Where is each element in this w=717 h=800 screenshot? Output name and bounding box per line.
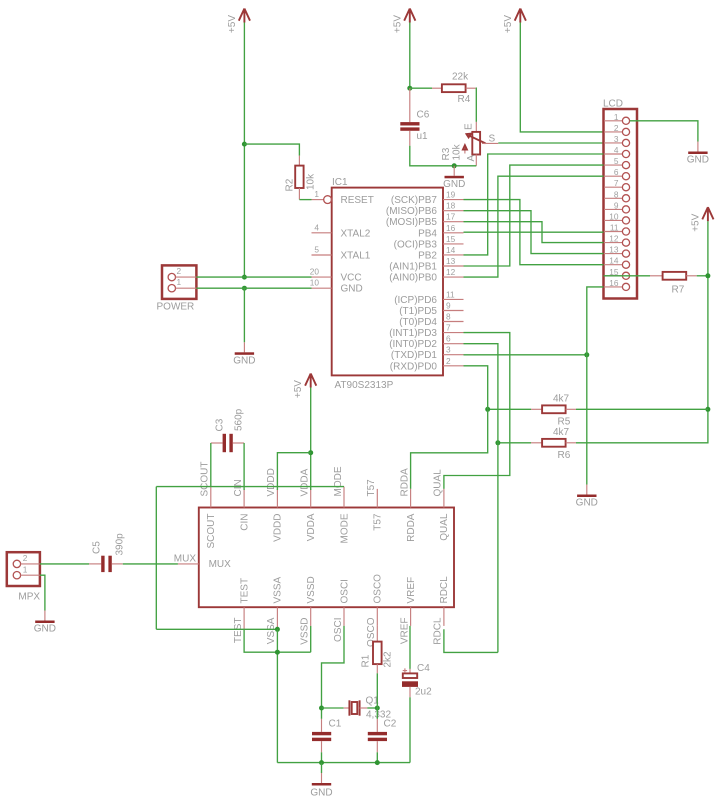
svg-text:1: 1 bbox=[23, 564, 28, 574]
svg-text:R2: R2 bbox=[285, 178, 296, 191]
svg-text:+5V: +5V bbox=[690, 213, 701, 231]
svg-text:RDDA: RDDA bbox=[399, 468, 410, 497]
wire VREF down to C4 bbox=[409, 626, 411, 669]
wire VDDD branch bbox=[277, 453, 310, 490]
svg-text:A: A bbox=[466, 155, 477, 162]
svg-text:T57: T57 bbox=[373, 513, 384, 531]
wire R5 left to junction bbox=[488, 408, 531, 410]
svg-text:RDCL: RDCL bbox=[433, 617, 444, 645]
wire C3 right down to CIN bbox=[243, 443, 245, 490]
svg-text:1: 1 bbox=[177, 277, 182, 287]
wire R7 to +5V rail bbox=[697, 275, 708, 277]
svg-text:R3: R3 bbox=[441, 147, 452, 160]
wire PB1 pin13 to LCD pad5 bbox=[464, 165, 604, 266]
wire POWER pin2 to IC1 VCC bbox=[196, 276, 311, 278]
LCD pad 14 bbox=[604, 256, 630, 269]
LCD pad 12 bbox=[604, 234, 630, 247]
svg-text:QUAL: QUAL bbox=[439, 513, 450, 541]
wire +5V rail vertical to VCC row bbox=[243, 23, 245, 278]
svg-text:+5V: +5V bbox=[503, 15, 514, 33]
svg-text:17: 17 bbox=[446, 212, 456, 222]
IC1 pin 1 RESET bbox=[312, 189, 374, 206]
wire ground rail bottom bbox=[277, 762, 410, 764]
svg-text:(TXD)PD1: (TXD)PD1 bbox=[391, 350, 438, 361]
IC1 pin 2 (RXD)PD0 bbox=[390, 356, 464, 373]
IC U2 top pin SCOUT bbox=[200, 462, 218, 549]
svg-text:9: 9 bbox=[446, 301, 451, 311]
wire C1 to ground rail bbox=[321, 752, 323, 762]
svg-text:XTAL1: XTAL1 bbox=[341, 251, 371, 262]
IC U2 bottom pin RDCL bbox=[433, 576, 451, 645]
wire R5 row right bbox=[576, 408, 708, 410]
svg-text:(ICP)PD6: (ICP)PD6 bbox=[394, 295, 437, 306]
IC U2 bottom pin OSCI bbox=[333, 579, 351, 642]
LCD pad 16 bbox=[604, 278, 630, 291]
svg-text:C6: C6 bbox=[417, 110, 430, 121]
power symbol +5V (LCD VDD rail) bbox=[503, 9, 526, 34]
IC U2 bottom pin VREF bbox=[399, 577, 417, 644]
LCD pad 10 bbox=[604, 211, 630, 224]
svg-text:VSSD: VSSD bbox=[306, 576, 317, 603]
svg-text:TEST: TEST bbox=[233, 618, 244, 644]
svg-text:(T1)PD5: (T1)PD5 bbox=[399, 306, 437, 317]
LCD pad 8 bbox=[604, 189, 630, 202]
svg-text:VSSA: VSSA bbox=[273, 576, 284, 603]
wire trimmer A to ground node bbox=[454, 165, 476, 167]
IC U2 bottom pin OSCO bbox=[366, 574, 384, 647]
wire R1 down through crystal node to C2 bbox=[376, 673, 378, 719]
svg-text:19: 19 bbox=[446, 190, 456, 200]
wire RDCL to R6 net bbox=[444, 629, 498, 652]
node junction rail/C2 bbox=[375, 760, 380, 765]
svg-text:1: 1 bbox=[314, 189, 319, 199]
svg-text:6: 6 bbox=[614, 167, 619, 177]
connector MPX bbox=[7, 552, 41, 602]
wire TEST column jog bbox=[244, 629, 311, 652]
ground GND (MPX) bbox=[34, 611, 56, 635]
connector POWER bbox=[157, 265, 197, 312]
svg-text:R5: R5 bbox=[558, 417, 571, 428]
svg-text:RDDA: RDDA bbox=[406, 513, 417, 542]
IC1 pin 11 (ICP)PD6 bbox=[394, 289, 463, 306]
op-amp/mcu IC1 AT90S2313P body bbox=[332, 177, 443, 391]
svg-text:R1: R1 bbox=[361, 654, 372, 667]
svg-text:GND: GND bbox=[576, 498, 598, 509]
svg-text:+5V: +5V bbox=[227, 15, 238, 33]
wire VSSD vertical bbox=[310, 626, 312, 652]
wire PD2 pin6 through R6 node down to RDCL link bbox=[464, 344, 498, 653]
svg-text:R7: R7 bbox=[672, 285, 685, 296]
wire ground net left vertical bbox=[155, 487, 157, 630]
svg-text:S: S bbox=[489, 134, 496, 145]
svg-text:8: 8 bbox=[446, 312, 451, 322]
svg-text:2k2: 2k2 bbox=[383, 651, 394, 668]
svg-text:VCC: VCC bbox=[341, 273, 362, 284]
svg-text:C1: C1 bbox=[329, 719, 342, 730]
node junction crystal left bbox=[319, 706, 324, 711]
svg-text:4: 4 bbox=[614, 145, 619, 155]
IC1 pin 14 PB2 bbox=[418, 245, 463, 262]
wire PB0 pin12 to LCD pad6 bbox=[464, 176, 604, 277]
svg-text:OSCI: OSCI bbox=[339, 579, 350, 603]
svg-text:13: 13 bbox=[446, 256, 456, 266]
resistor R6 4k7 bbox=[531, 427, 576, 461]
svg-text:C5: C5 bbox=[92, 541, 103, 554]
IC1 pin 8 (T0)PD4 bbox=[399, 312, 463, 329]
ground GND (under POWER) bbox=[233, 342, 255, 366]
node junction R6/PD2/RDCL bbox=[495, 440, 500, 445]
IC1 pin 7 (INT1)PD3 bbox=[389, 323, 463, 340]
LCD pad 1 bbox=[604, 112, 630, 125]
svg-text:R4: R4 bbox=[458, 94, 471, 105]
LCD pad 6 bbox=[604, 167, 630, 180]
svg-text:PB4: PB4 bbox=[418, 228, 437, 239]
wire R4 right down to trimmer E bbox=[475, 88, 478, 122]
svg-text:5: 5 bbox=[314, 245, 319, 255]
IC1 pin 12 (AIN0)PB0 bbox=[389, 267, 463, 284]
svg-text:12: 12 bbox=[609, 234, 619, 244]
IC U2 top pin MODE bbox=[333, 466, 351, 543]
svg-text:MODE: MODE bbox=[333, 466, 344, 496]
svg-text:GND: GND bbox=[310, 788, 332, 799]
wire PD3 pin7 to QUAL bbox=[444, 333, 510, 489]
svg-text:(AIN1)PB1: (AIN1)PB1 bbox=[389, 262, 437, 273]
IC U2 top pin CIN bbox=[233, 479, 251, 530]
IC U2 bottom pin VSSA bbox=[266, 576, 284, 644]
IC U2 bottom pin TEST bbox=[233, 578, 251, 643]
svg-text:CIN: CIN bbox=[239, 514, 250, 531]
resistor R7 bbox=[650, 272, 697, 296]
wire +5V right rail vertical bbox=[576, 221, 708, 443]
wire MPX pin2 to C5 bbox=[40, 563, 89, 565]
capacitor C2 bbox=[368, 719, 397, 753]
LCD pad 15 bbox=[604, 267, 630, 280]
node junction R7/+5V bbox=[705, 273, 710, 278]
svg-text:VDDD: VDDD bbox=[273, 514, 284, 542]
svg-text:+5V: +5V bbox=[293, 380, 304, 398]
LCD pad 13 bbox=[604, 245, 630, 258]
IC1 pin 16 PB4 bbox=[418, 223, 463, 240]
svg-text:(OCI)PB3: (OCI)PB3 bbox=[394, 239, 438, 250]
wire GND row down to ground bbox=[243, 288, 245, 342]
svg-text:C4: C4 bbox=[417, 663, 430, 674]
IC1 pin 9 (T1)PD5 bbox=[399, 301, 463, 318]
IC U2 top pin VDDD bbox=[266, 468, 284, 542]
IC U2 top pin QUAL bbox=[433, 469, 451, 541]
svg-text:AT90S2313P: AT90S2313P bbox=[335, 380, 394, 391]
IC U2 top pin VDDA bbox=[300, 468, 318, 541]
node junction R5/+5V bbox=[705, 407, 710, 412]
node junction VDDD branch bbox=[308, 450, 313, 455]
svg-text:7: 7 bbox=[614, 178, 619, 188]
wire MPX pin1 to ground bbox=[40, 575, 45, 610]
svg-text:E: E bbox=[463, 123, 474, 130]
svg-text:C3: C3 bbox=[215, 418, 226, 431]
wire LCD pad1 to ground bbox=[630, 121, 698, 142]
wire ground net SCOUT-MODE horizontal bbox=[156, 486, 344, 488]
svg-text:10k: 10k bbox=[452, 143, 463, 160]
ground GND (right of LCD) bbox=[687, 142, 709, 166]
svg-text:GND: GND bbox=[341, 284, 363, 295]
svg-text:4k7: 4k7 bbox=[553, 427, 570, 438]
svg-text:(INT1)PD3: (INT1)PD3 bbox=[389, 328, 437, 339]
LCD pad 2 bbox=[604, 123, 630, 136]
svg-text:(MOSI)PB5: (MOSI)PB5 bbox=[386, 217, 438, 228]
svg-text:16: 16 bbox=[609, 278, 619, 288]
IC1 pin 5 XTAL1 bbox=[312, 245, 371, 262]
capacitor C4 2u2 polarized bbox=[402, 663, 432, 698]
IC1 pin 18 (MISO)PB6 bbox=[386, 201, 464, 218]
resistor R1 2k2 bbox=[361, 626, 394, 673]
svg-text:TEST: TEST bbox=[239, 578, 250, 604]
svg-text:2: 2 bbox=[23, 553, 28, 563]
svg-text:1: 1 bbox=[614, 112, 619, 122]
svg-text:LCD: LCD bbox=[603, 99, 623, 110]
resistor R4 22k bbox=[432, 72, 476, 106]
svg-text:RDCL: RDCL bbox=[439, 576, 450, 604]
svg-text:MPX: MPX bbox=[18, 592, 40, 603]
ground GND (mid right) bbox=[576, 485, 598, 509]
svg-text:20: 20 bbox=[310, 267, 320, 277]
LCD pad 7 bbox=[604, 178, 630, 191]
wire trimmer S to LCD pin 3 bbox=[498, 142, 603, 144]
svg-text:(SCK)PB7: (SCK)PB7 bbox=[391, 195, 438, 206]
svg-text:10: 10 bbox=[310, 278, 320, 288]
svg-text:2: 2 bbox=[614, 123, 619, 133]
svg-text:(AIN0)PB0: (AIN0)PB0 bbox=[389, 273, 437, 284]
svg-text:MODE: MODE bbox=[339, 513, 350, 543]
connector LCD body bbox=[603, 99, 637, 299]
svg-text:2: 2 bbox=[446, 356, 451, 366]
wire C4 down to ground rail bbox=[409, 697, 411, 762]
svg-text:CIN: CIN bbox=[233, 479, 244, 496]
svg-text:2: 2 bbox=[177, 266, 182, 276]
capacitor C6 u1 bbox=[400, 88, 429, 146]
svg-text:22k: 22k bbox=[452, 72, 469, 83]
svg-text:11: 11 bbox=[610, 223, 619, 233]
svg-text:MUX: MUX bbox=[209, 559, 232, 570]
node junction VSSA top bbox=[275, 627, 280, 632]
svg-text:GND: GND bbox=[34, 624, 56, 635]
LCD pad 11 bbox=[604, 223, 630, 236]
svg-text:MUX: MUX bbox=[174, 554, 197, 565]
power symbol +5V (left rail) bbox=[227, 9, 250, 34]
svg-text:IC1: IC1 bbox=[332, 177, 348, 188]
svg-text:4: 4 bbox=[314, 222, 319, 232]
wire C2 to ground rail bbox=[376, 752, 378, 762]
svg-text:(T0)PD4: (T0)PD4 bbox=[399, 317, 437, 328]
ground GND (bottom) bbox=[310, 773, 332, 799]
svg-text:SCOUT: SCOUT bbox=[206, 514, 217, 549]
svg-text:2u2: 2u2 bbox=[415, 687, 432, 698]
node junction rail/C1 bbox=[319, 760, 324, 765]
svg-text:VDDA: VDDA bbox=[300, 468, 311, 496]
svg-text:C2: C2 bbox=[384, 719, 397, 730]
IC U2 top pin RDDA bbox=[399, 468, 417, 542]
wire PB2 pin14 to LCD pad4 bbox=[464, 154, 604, 255]
IC U2 top pin T57 bbox=[366, 479, 384, 531]
IC1 pin 17 (MOSI)PB5 bbox=[386, 212, 464, 229]
node junction crystal right bbox=[375, 706, 380, 711]
svg-text:10k: 10k bbox=[306, 173, 317, 190]
wire LCD pad15 to R7 bbox=[604, 275, 651, 277]
wire PD1 pin3 to LED- node bbox=[464, 354, 587, 356]
node junction ground node bbox=[452, 163, 457, 168]
wire R5 node down to RDDA bbox=[411, 409, 488, 489]
svg-text:+5V: +5V bbox=[392, 15, 403, 33]
svg-text:R6: R6 bbox=[558, 450, 571, 461]
svg-text:3: 3 bbox=[614, 134, 619, 144]
capacitor C5 390p bbox=[89, 533, 126, 572]
wire C6 bottom to ground node bbox=[410, 146, 454, 166]
IC U2 left pin MUX bbox=[174, 554, 231, 571]
svg-text:5: 5 bbox=[614, 156, 619, 166]
svg-text:560p: 560p bbox=[234, 408, 245, 431]
node junction R4/C6/+5V bbox=[407, 86, 412, 91]
IC1 pin 3 (TXD)PD1 bbox=[391, 345, 464, 362]
capacitor C1 bbox=[312, 719, 342, 753]
power symbol +5V (right rail) bbox=[690, 207, 713, 232]
wire R2 to RESET bbox=[299, 199, 311, 201]
svg-text:OSCO: OSCO bbox=[373, 574, 384, 604]
wire +5V down to VDDA bbox=[310, 388, 312, 491]
IC1 pin 13 (AIN1)PB1 bbox=[389, 256, 463, 273]
svg-text:VDDD: VDDD bbox=[266, 468, 277, 496]
svg-text:OSCI: OSCI bbox=[333, 618, 344, 642]
wire PB7 pin19 to LCD pad14 bbox=[464, 200, 604, 265]
wire node to R4 bbox=[410, 87, 432, 89]
power symbol +5V (VDDD/VDDA) bbox=[293, 374, 316, 399]
svg-text:SCOUT: SCOUT bbox=[200, 462, 211, 497]
svg-text:PB2: PB2 bbox=[418, 250, 437, 261]
svg-text:12: 12 bbox=[446, 267, 456, 277]
wire crystal right to OSCO column bbox=[367, 707, 377, 709]
wire R2 branch horizontal bbox=[244, 144, 299, 156]
svg-text:VREF: VREF bbox=[399, 618, 410, 645]
capacitor C3 560p bbox=[211, 408, 245, 452]
wire C3 left down to SCOUT bbox=[210, 443, 212, 487]
LCD pad 3 bbox=[604, 134, 630, 147]
wire PB4 pin16 to LCD pad11 bbox=[464, 231, 604, 233]
svg-text:RESET: RESET bbox=[341, 195, 374, 206]
wire OSCI jog to crystal column bbox=[322, 626, 345, 719]
svg-text:(MISO)PB6: (MISO)PB6 bbox=[386, 206, 438, 217]
node junction VSSA lower bbox=[275, 650, 280, 655]
LCD pad 4 bbox=[604, 145, 630, 158]
svg-text:XTAL2: XTAL2 bbox=[341, 228, 371, 239]
wire +5V to LCD pin 2 bbox=[520, 23, 603, 132]
svg-text:(INT0)PD2: (INT0)PD2 bbox=[389, 339, 437, 350]
svg-text:14: 14 bbox=[609, 256, 619, 266]
resistor R5 4k7 bbox=[531, 394, 576, 428]
node junction POWER pin1 (GND row) bbox=[242, 286, 247, 291]
wire LCD pad16 down to ground bbox=[587, 287, 604, 485]
svg-text:GND: GND bbox=[443, 179, 465, 190]
wire PD0 pin2 to R5 node bbox=[464, 366, 488, 410]
svg-text:(RXD)PD0: (RXD)PD0 bbox=[390, 361, 438, 372]
svg-text:6: 6 bbox=[446, 334, 451, 344]
IC U2 (detector) body bbox=[199, 508, 454, 608]
node junction R5/PD0/RDDA bbox=[485, 407, 490, 412]
power symbol +5V (C6/R4 rail) bbox=[392, 9, 415, 34]
LCD pad 5 bbox=[604, 156, 630, 169]
wire VSSA vertical bbox=[276, 629, 278, 762]
svg-text:3: 3 bbox=[446, 345, 451, 355]
IC1 pin 19 (SCK)PB7 bbox=[391, 190, 464, 207]
svg-text:T57: T57 bbox=[366, 479, 377, 497]
wire +5V down to R4/C6 node bbox=[409, 23, 411, 89]
svg-text:13: 13 bbox=[609, 245, 619, 255]
ground GND (top middle) bbox=[443, 166, 465, 190]
svg-text:QUAL: QUAL bbox=[433, 469, 444, 497]
wire PB6 pin18 to LCD pad13 bbox=[464, 211, 604, 254]
node junction PD1/LCD16 bbox=[584, 352, 589, 357]
svg-text:18: 18 bbox=[446, 201, 456, 211]
wire rail to bottom ground bbox=[321, 763, 323, 773]
trimmer resistor R3 10k bbox=[441, 122, 498, 166]
svg-text:390p: 390p bbox=[115, 533, 126, 556]
svg-text:GND: GND bbox=[687, 155, 709, 166]
svg-text:GND: GND bbox=[233, 355, 255, 366]
crystal Q1 4,332 bbox=[322, 696, 392, 721]
wire C5 to MUX bbox=[123, 563, 178, 565]
wire R6 left to junction bbox=[498, 442, 531, 444]
wire POWER pin1 to IC1 GND bbox=[196, 287, 311, 289]
svg-text:15: 15 bbox=[446, 234, 456, 244]
svg-text:u1: u1 bbox=[417, 131, 429, 142]
svg-text:9: 9 bbox=[614, 200, 619, 210]
svg-text:VREF: VREF bbox=[406, 577, 417, 604]
IC1 pin 4 XTAL2 bbox=[312, 222, 371, 239]
node junction +5V / POWER pin2 (VCC row) bbox=[242, 275, 247, 280]
wire ground net TEST/VSSA horizontal bbox=[156, 628, 277, 630]
IC U2 bottom pin VSSD bbox=[300, 576, 318, 644]
IC1 pin 10 GND bbox=[310, 278, 363, 295]
IC1 pin 20 VCC bbox=[310, 267, 362, 284]
svg-text:POWER: POWER bbox=[157, 302, 195, 313]
svg-text:10: 10 bbox=[609, 211, 619, 221]
resistor R2 bbox=[285, 156, 317, 200]
svg-text:VSSD: VSSD bbox=[300, 618, 311, 645]
node junction +5V / R2 branch bbox=[242, 142, 247, 147]
svg-text:14: 14 bbox=[446, 245, 456, 255]
svg-text:VDDA: VDDA bbox=[306, 513, 317, 541]
wire PB5 pin17 to LCD pad12 bbox=[464, 222, 604, 243]
svg-text:16: 16 bbox=[446, 223, 456, 233]
svg-text:11: 11 bbox=[446, 289, 455, 299]
svg-text:7: 7 bbox=[446, 323, 451, 333]
IC1 pin 6 (INT0)PD2 bbox=[389, 334, 463, 351]
LCD pad 9 bbox=[604, 200, 630, 213]
IC1 pin 15 (OCI)PB3 bbox=[394, 234, 464, 251]
svg-text:8: 8 bbox=[614, 189, 619, 199]
svg-text:4k7: 4k7 bbox=[553, 394, 570, 405]
